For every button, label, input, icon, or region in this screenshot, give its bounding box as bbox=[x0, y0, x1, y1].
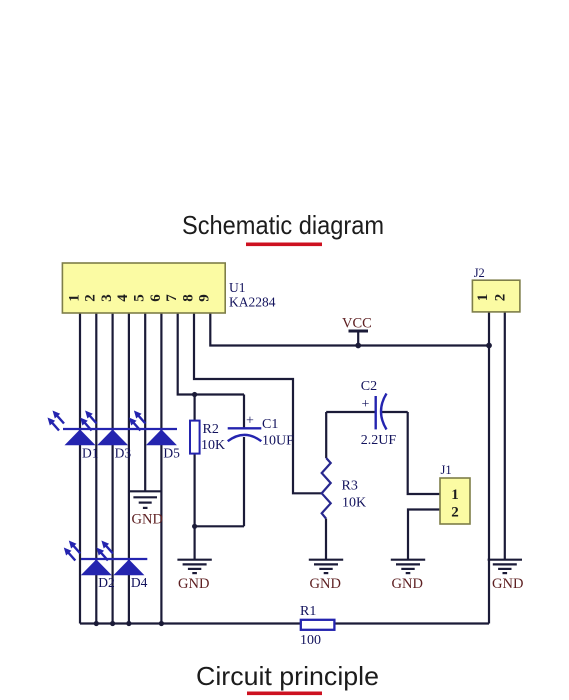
ground (R2) bbox=[177, 560, 211, 573]
LED cathode bar line bottom row bbox=[81, 558, 147, 560]
wire pin4/D4 column bbox=[128, 313, 130, 624]
junction dot VCC rail to J2 pin1 bbox=[486, 343, 492, 349]
wire J1 pin2 to ground bbox=[408, 510, 440, 560]
svg-text:100: 100 bbox=[300, 633, 321, 648]
bottom title underline (red) bbox=[247, 692, 322, 696]
svg-text:2: 2 bbox=[451, 505, 459, 521]
junction dot VCC rail tap bbox=[355, 343, 361, 349]
svg-text:3: 3 bbox=[99, 294, 115, 302]
svg-text:1: 1 bbox=[451, 487, 459, 503]
svg-text:+: + bbox=[362, 397, 370, 412]
svg-text:1: 1 bbox=[475, 294, 491, 302]
svg-text:Circuit principle: Circuit principle bbox=[196, 661, 379, 691]
wire J2 pin2 to ground bbox=[504, 312, 506, 560]
svg-text:GND: GND bbox=[132, 512, 163, 528]
wire pin1/D1 column bbox=[79, 313, 81, 624]
svg-text:9: 9 bbox=[197, 294, 213, 302]
svg-text:U1: U1 bbox=[229, 280, 246, 295]
wire C1 top riser bbox=[243, 395, 245, 429]
junction dot rail-D2 bbox=[94, 621, 99, 626]
wire pin8 to R3 wiper bbox=[194, 313, 322, 493]
svg-text:2: 2 bbox=[493, 294, 509, 302]
resistor R2 bbox=[190, 421, 200, 454]
svg-text:10K: 10K bbox=[201, 438, 225, 453]
connector J2 body bbox=[472, 280, 520, 312]
ground (pin5) bbox=[129, 491, 161, 508]
LED D5 bbox=[129, 411, 180, 461]
svg-text:GND: GND bbox=[310, 576, 341, 592]
wire pin5 to ground bbox=[144, 313, 146, 491]
svg-text:10UF: 10UF bbox=[262, 434, 294, 449]
ground (J2 pin2) bbox=[488, 560, 522, 573]
svg-text:D2: D2 bbox=[98, 575, 115, 590]
svg-text:1: 1 bbox=[66, 294, 82, 302]
svg-text:D1: D1 bbox=[82, 446, 99, 461]
title: Circuit principle bbox=[196, 661, 379, 691]
wire R3 top stub bbox=[325, 412, 327, 458]
svg-text:GND: GND bbox=[392, 576, 423, 592]
wire C2 right lead bbox=[382, 411, 408, 413]
svg-text:7: 7 bbox=[164, 294, 180, 302]
svg-text:5: 5 bbox=[132, 294, 148, 302]
wire pin3/D3 column bbox=[111, 313, 113, 624]
wire C2 left lead bbox=[326, 411, 375, 413]
svg-text:D3: D3 bbox=[115, 446, 132, 461]
LED D2 bbox=[64, 541, 115, 591]
svg-text:J1: J1 bbox=[441, 463, 452, 477]
svg-text:J2: J2 bbox=[474, 266, 485, 280]
svg-text:GND: GND bbox=[178, 576, 209, 592]
capacitor C2 bbox=[375, 396, 377, 429]
wire C1 bottom link to R2 bbox=[195, 525, 244, 527]
junction dot rail-D5 bbox=[159, 621, 164, 626]
wire C2 to J1 pin1 riser bbox=[408, 412, 440, 494]
svg-text:C1: C1 bbox=[262, 417, 278, 432]
wire pin6/D5 column bbox=[160, 313, 162, 624]
LED cathode bar line top row bbox=[63, 428, 177, 430]
svg-text:R1: R1 bbox=[300, 604, 316, 619]
capacitor C1 bbox=[228, 427, 262, 429]
LED D4 bbox=[96, 541, 147, 591]
svg-text:Schematic diagram: Schematic diagram bbox=[182, 210, 384, 240]
svg-text:10K: 10K bbox=[342, 496, 366, 511]
wire pin2/D2 column bbox=[95, 313, 97, 624]
wire R2 bottom to ground bbox=[194, 454, 196, 560]
svg-text:2: 2 bbox=[83, 294, 99, 302]
connector J1 body bbox=[440, 478, 470, 524]
svg-text:8: 8 bbox=[180, 294, 196, 302]
svg-text:GND: GND bbox=[492, 576, 523, 592]
junction dot rail-D4 bbox=[126, 621, 131, 626]
op-amp U1 KA2284 body bbox=[62, 263, 225, 313]
svg-text:D5: D5 bbox=[163, 446, 180, 461]
svg-text:VCC: VCC bbox=[342, 316, 372, 332]
svg-text:D4: D4 bbox=[131, 575, 148, 590]
wire bottom rail with R1 bbox=[80, 622, 489, 624]
junction dot rail-D3 bbox=[110, 621, 115, 626]
svg-text:R3: R3 bbox=[342, 479, 358, 494]
svg-text:C2: C2 bbox=[361, 379, 377, 394]
svg-text:4: 4 bbox=[115, 294, 131, 302]
title: Schematic diagram bbox=[182, 210, 384, 240]
svg-text:KA2284: KA2284 bbox=[229, 295, 276, 310]
title underline (red) bbox=[246, 243, 322, 247]
svg-text:+: + bbox=[246, 414, 254, 429]
LED D3 bbox=[80, 411, 131, 461]
LED D1 bbox=[48, 411, 99, 461]
junction dot R2-C1 bottom node bbox=[192, 524, 197, 529]
resistor R1 bbox=[301, 620, 335, 630]
wire pin7 to node with R2 and C1 bbox=[178, 313, 244, 395]
wire VCC stub bbox=[357, 331, 359, 346]
junction dot R2 top node bbox=[192, 392, 197, 397]
svg-text:R2: R2 bbox=[203, 422, 219, 437]
wire R3 bottom to ground bbox=[325, 519, 327, 560]
VCC bar bbox=[349, 330, 369, 333]
resistor R3 (zigzag) bbox=[322, 458, 331, 519]
ground (R3) bbox=[309, 560, 343, 573]
ground (J1 pin2) bbox=[391, 560, 425, 573]
wire R2 top stub bbox=[194, 395, 196, 422]
wire C1 bottom lead bbox=[243, 437, 245, 526]
svg-text:6: 6 bbox=[148, 294, 164, 302]
wire J2 pin1 column to bottom rail bbox=[488, 312, 490, 624]
wire pin9 to VCC rail bbox=[210, 313, 489, 346]
svg-text:2.2UF: 2.2UF bbox=[361, 433, 397, 448]
